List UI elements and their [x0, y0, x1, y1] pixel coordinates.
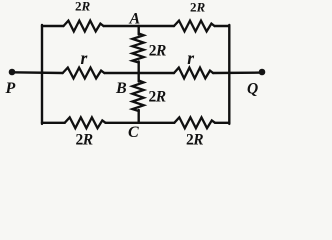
svg-text:r: r — [81, 48, 88, 68]
svg-text:r: r — [187, 48, 194, 68]
svg-text:2R: 2R — [190, 0, 206, 14]
svg-text:A: A — [129, 11, 141, 28]
svg-text:2R: 2R — [186, 131, 203, 148]
svg-text:2R: 2R — [149, 89, 166, 106]
svg-text:B: B — [115, 80, 127, 97]
svg-text:P: P — [5, 80, 16, 97]
svg-text:2R: 2R — [75, 0, 91, 14]
svg-text:Q: Q — [247, 81, 258, 98]
svg-text:2R: 2R — [149, 42, 166, 59]
svg-text:C: C — [128, 124, 139, 141]
svg-text:2R: 2R — [76, 132, 93, 149]
